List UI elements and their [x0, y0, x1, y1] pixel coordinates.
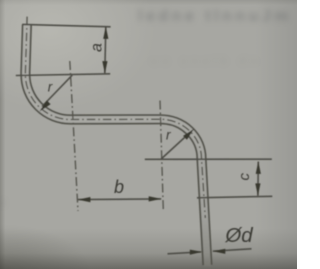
- arrowhead r1: [40, 100, 51, 111]
- tube centerline (dash-dot): [25, 17, 205, 218]
- tube interior (paper tone) making two edge lines: [25, 24, 207, 266]
- extension line top (from tube top end, for dimension a): [22, 24, 110, 26]
- arrowhead Ød right (points left at tube): [213, 249, 226, 254]
- svg-text:b: b: [114, 177, 124, 197]
- svg-text:a: a: [88, 43, 105, 52]
- arrowhead c top: [256, 161, 261, 174]
- bleed-through smudge bottom left: [0, 198, 9, 210]
- dimension line Ø d (left tail): [168, 252, 202, 254]
- arrowhead c bottom: [255, 183, 260, 196]
- arrowhead r2: [183, 129, 194, 140]
- arrowhead a bottom: [102, 61, 107, 74]
- bend 1 center vertical dash-dot line (left extension of b): [70, 61, 78, 211]
- leader r (bend 1): [42, 75, 72, 106]
- dimension line Ø d (right tail): [213, 249, 252, 251]
- dimension line b: [78, 198, 161, 201]
- leader r (bend 2): [161, 133, 190, 159]
- tube outline (bent rod): dark outer stroke: [25, 25, 207, 265]
- svg-text:r: r: [166, 127, 171, 142]
- arrowhead b left: [78, 197, 91, 202]
- dimension line a: [105, 27, 106, 73]
- arrowhead Ød left (points right at tube): [190, 250, 203, 255]
- faint second bleed-through line: [150, 53, 261, 68]
- extension line c bottom: [197, 196, 272, 198]
- bend 2 center horizontal line (top extension of c): [145, 158, 272, 160]
- svg-text:c: c: [236, 173, 253, 181]
- bleed-through text from reverse page (top right): [138, 8, 292, 26]
- bend 1 center horizontal line (bottom extension of a): [16, 74, 110, 76]
- arrowhead b right: [149, 196, 162, 201]
- bend 2 center vertical dash-dot line (right extension of b): [160, 101, 163, 211]
- svg-text:r: r: [48, 80, 53, 95]
- svg-text:Ød: Ød: [224, 224, 253, 247]
- arrowhead a top: [103, 26, 108, 39]
- dimension line c: [257, 162, 259, 196]
